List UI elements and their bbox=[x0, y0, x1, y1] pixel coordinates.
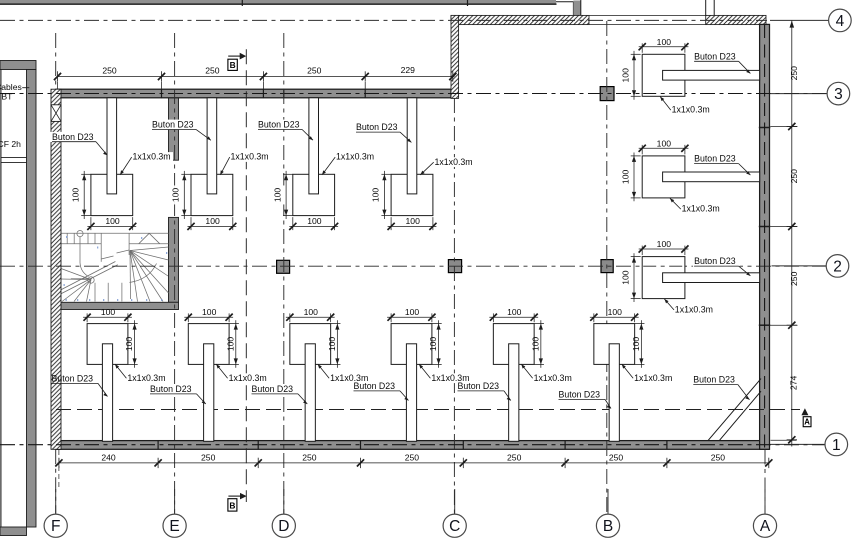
section line B-B bbox=[245, 49, 247, 502]
svg-text:250: 250 bbox=[789, 271, 799, 286]
svg-text:Buton D23: Buton D23 bbox=[559, 390, 601, 400]
column at C-2 bbox=[448, 260, 461, 273]
dimension 100 left of footing T3 bbox=[272, 171, 293, 219]
dimension 100 right of footing B6 bbox=[631, 320, 645, 368]
dimension 100 above footing R1 bbox=[639, 37, 689, 53]
svg-text:100: 100 bbox=[657, 37, 672, 47]
svg-text:1: 1 bbox=[832, 437, 841, 454]
svg-text:Buton D23: Buton D23 bbox=[694, 51, 736, 61]
svg-text:Buton D23: Buton D23 bbox=[52, 374, 94, 384]
svg-text:1x1x0.3m: 1x1x0.3m bbox=[672, 105, 710, 115]
svg-text:A: A bbox=[760, 518, 771, 535]
dimension 100 above footing B4 bbox=[387, 307, 436, 322]
svg-text:250: 250 bbox=[711, 452, 726, 462]
buton column B3 footing and post bbox=[290, 324, 331, 442]
svg-text:240: 240 bbox=[101, 452, 116, 462]
svg-text:100: 100 bbox=[657, 239, 672, 249]
label Buton D23 column B2 bbox=[149, 384, 206, 404]
svg-text:100: 100 bbox=[327, 337, 337, 352]
dimension 100 below footing T1 bbox=[87, 216, 136, 230]
label 1x1x0.3m footing R2 bbox=[670, 198, 720, 214]
svg-text:3: 3 bbox=[834, 86, 843, 103]
hatched wall vertical at C bbox=[451, 15, 459, 98]
section marker A right bbox=[801, 408, 808, 415]
svg-text:Buton D23: Buton D23 bbox=[52, 132, 94, 142]
hatched parapet wall left segment bbox=[451, 15, 589, 24]
svg-text:100: 100 bbox=[657, 139, 672, 149]
svg-text:100: 100 bbox=[272, 188, 282, 203]
grid bubble F bbox=[44, 489, 67, 537]
svg-text:1x1x0.3m: 1x1x0.3m bbox=[682, 204, 720, 214]
grid line row 2 bbox=[0, 265, 826, 267]
grid bubble A bbox=[753, 489, 776, 537]
dimension 100 right of footing B4 bbox=[428, 320, 442, 368]
label 1x1x0.3m footing T1 bbox=[120, 152, 173, 175]
grid bubble 2 bbox=[772, 255, 849, 278]
buton column B1 footing and post bbox=[87, 324, 128, 442]
svg-text:1x1x0.3m: 1x1x0.3m bbox=[133, 152, 171, 162]
svg-text:Buton D23: Buton D23 bbox=[152, 120, 194, 130]
bottom dimension chain 240/250x6 bbox=[55, 450, 772, 488]
label Buton D23 column B6 bbox=[557, 390, 611, 409]
left structure door lines bbox=[1, 157, 27, 159]
dimension 100 left of footing R1 bbox=[621, 51, 641, 100]
svg-text:B: B bbox=[603, 518, 613, 535]
label 1x1x0.3m footing R1 bbox=[660, 97, 710, 115]
svg-text:4: 4 bbox=[836, 13, 845, 30]
buton column B2 footing and post bbox=[188, 324, 229, 442]
svg-text:E: E bbox=[169, 518, 179, 535]
left structure bottom wall bbox=[0, 527, 27, 536]
buton column B6 footing and post bbox=[594, 324, 635, 442]
svg-text:BT: BT bbox=[1, 91, 13, 101]
svg-text:1x1x0.3m: 1x1x0.3m bbox=[127, 373, 165, 383]
svg-text:100: 100 bbox=[101, 307, 116, 317]
svg-text:100: 100 bbox=[608, 307, 623, 317]
svg-text:100: 100 bbox=[530, 337, 540, 352]
svg-text:250: 250 bbox=[609, 452, 624, 462]
dimension 100 above footing B3 bbox=[286, 307, 335, 322]
svg-text:250: 250 bbox=[789, 66, 799, 81]
svg-text:2: 2 bbox=[833, 259, 842, 276]
label 1x1x0.3m footing B5 bbox=[521, 364, 574, 383]
svg-text:100: 100 bbox=[621, 270, 631, 285]
dimension 100 left of footing T1 bbox=[70, 171, 91, 219]
dimension 100 above footing B2 bbox=[184, 307, 233, 322]
svg-text:274: 274 bbox=[788, 376, 798, 391]
grid bubble D bbox=[272, 489, 295, 537]
dimension 100 right of footing B2 bbox=[225, 320, 239, 368]
svg-text:Buton D23: Buton D23 bbox=[354, 381, 396, 391]
svg-text:100: 100 bbox=[371, 188, 381, 203]
label 1x1x0.3m footing T3 bbox=[322, 152, 377, 175]
svg-text:100: 100 bbox=[304, 307, 319, 317]
grid bubble 4 bbox=[770, 9, 851, 32]
grid line A lower bbox=[764, 450, 766, 516]
stair enclosure wall lower bbox=[169, 217, 179, 302]
section marker B bottom bbox=[228, 495, 240, 497]
right dimension chain 250x3/274 bbox=[770, 20, 799, 446]
grid line row 1 bbox=[0, 444, 825, 446]
svg-text:1x1x0.3m: 1x1x0.3m bbox=[435, 157, 473, 167]
dimension 100 above footing B5 bbox=[489, 307, 538, 322]
grid line E bbox=[174, 33, 176, 514]
section line A-A bbox=[56, 409, 800, 411]
svg-text:B: B bbox=[230, 60, 236, 70]
dimension 100 above footing R2 bbox=[639, 139, 689, 155]
right wall joint tick 2 bbox=[759, 226, 771, 228]
dimension 100 above footing B1 bbox=[83, 307, 132, 322]
section marker B top bbox=[228, 55, 240, 57]
svg-text:Buton D23: Buton D23 bbox=[458, 381, 500, 391]
label 1x1x0.3m footing B2 bbox=[216, 364, 269, 383]
svg-text:D: D bbox=[278, 518, 289, 535]
svg-text:1x1x0.3m: 1x1x0.3m bbox=[534, 373, 572, 383]
left structure inner edge bbox=[0, 70, 2, 528]
svg-text:100: 100 bbox=[428, 337, 438, 352]
svg-text:Buton D23: Buton D23 bbox=[150, 384, 192, 394]
label 1x1x0.3m footing R3 bbox=[664, 299, 713, 315]
label Buton D23 column B3 bbox=[250, 384, 307, 404]
bottom wall joint ticks bbox=[157, 440, 159, 449]
dimension 100 right of footing B5 bbox=[530, 320, 544, 368]
dimension 100 above footing R3 bbox=[639, 239, 689, 255]
svg-text:F: F bbox=[51, 518, 60, 535]
grid line F bbox=[55, 33, 57, 90]
grid bubble E bbox=[163, 489, 186, 537]
left structure top wall bbox=[0, 61, 36, 70]
svg-text:100: 100 bbox=[171, 188, 181, 203]
window opening in top wall bbox=[589, 15, 706, 17]
label 1x1x0.3m footing T2 bbox=[220, 152, 271, 175]
svg-text:Buton D23: Buton D23 bbox=[693, 375, 735, 385]
svg-text:1x1x0.3m: 1x1x0.3m bbox=[231, 152, 269, 162]
grid bubble 3 bbox=[770, 82, 850, 105]
svg-text:100: 100 bbox=[105, 216, 120, 226]
label 1x1x0.3m footing B6 bbox=[622, 364, 675, 383]
grid bubble C bbox=[443, 489, 466, 537]
svg-text:250: 250 bbox=[307, 66, 322, 76]
left structure vertical wall bbox=[27, 70, 37, 528]
hatched parapet wall right segment bbox=[706, 15, 766, 24]
svg-text:1x1x0.3m: 1x1x0.3m bbox=[336, 152, 374, 162]
svg-text:Buton D23: Buton D23 bbox=[694, 256, 736, 266]
svg-text:1x1x0.3m: 1x1x0.3m bbox=[675, 305, 713, 315]
label Buton D23 column R2 bbox=[693, 154, 751, 175]
buton column R3 footing and tie beam bbox=[642, 257, 759, 299]
svg-text:250: 250 bbox=[102, 66, 117, 76]
grid line row 3 bbox=[0, 93, 827, 95]
main right wall bbox=[760, 24, 770, 449]
svg-text:100: 100 bbox=[621, 68, 631, 83]
svg-text:100: 100 bbox=[406, 216, 421, 226]
buton column T1 footing and post bbox=[91, 98, 133, 216]
column at B-3 bbox=[600, 87, 614, 101]
svg-text:CF 2h: CF 2h bbox=[0, 139, 21, 149]
label Buton D23 column B1 bbox=[52, 374, 108, 397]
dimension 100 below footing T4 bbox=[388, 216, 437, 230]
buton column T2 footing and post bbox=[191, 98, 233, 216]
dimension 100 left of footing T4 bbox=[371, 171, 392, 219]
svg-text:250: 250 bbox=[405, 452, 420, 462]
svg-text:100: 100 bbox=[631, 337, 641, 352]
dimension 100 below footing T3 bbox=[289, 216, 338, 230]
window in left wall bbox=[51, 105, 61, 122]
stair enclosure wall bottom bbox=[53, 302, 179, 309]
right wall joint tick 1 bbox=[759, 127, 771, 129]
grid line A wall centerline bbox=[764, 25, 766, 449]
buton column B4 footing and post bbox=[391, 324, 432, 442]
svg-text:250: 250 bbox=[789, 169, 799, 184]
svg-text:1x1x0.3m: 1x1x0.3m bbox=[229, 373, 267, 383]
buton column T4 footing and post bbox=[391, 98, 433, 216]
buton column R1 footing and tie beam bbox=[642, 54, 759, 96]
stair enclosure wall upper bbox=[169, 97, 179, 160]
svg-text:229: 229 bbox=[401, 65, 416, 75]
svg-text:250: 250 bbox=[205, 66, 220, 76]
label Buton D23 column T4 bbox=[355, 122, 412, 142]
svg-text:100: 100 bbox=[507, 307, 522, 317]
label 1x1x0.3m footing B1 bbox=[115, 364, 168, 383]
main bottom wall row 1 bbox=[56, 441, 769, 450]
svg-text:250: 250 bbox=[201, 452, 216, 462]
grid line row 4 bbox=[0, 19, 767, 21]
dimension 100 right of footing B1 bbox=[124, 320, 138, 368]
main top wall row 3 bbox=[56, 89, 451, 98]
dimension 100 left of footing T2 bbox=[171, 171, 192, 219]
grid bubble 1 bbox=[770, 433, 848, 456]
grid line D bbox=[283, 33, 285, 514]
svg-text:100: 100 bbox=[307, 216, 322, 226]
buton column T3 footing and post bbox=[293, 98, 335, 216]
grid bubble B bbox=[596, 489, 619, 537]
grid line C bbox=[453, 98, 455, 516]
column at B-2 bbox=[601, 260, 613, 273]
dimension 100 below footing T2 bbox=[187, 216, 236, 230]
svg-text:A: A bbox=[804, 418, 810, 427]
column at D-2 bbox=[277, 260, 290, 273]
grid line B bbox=[606, 21, 608, 516]
label Buton D23 column B5 bbox=[456, 381, 511, 401]
buton column B5 footing and post bbox=[493, 324, 534, 442]
stair bbox=[61, 231, 169, 302]
adjacent building top wall bbox=[0, 0, 556, 3]
label Buton D23 column R3 bbox=[693, 256, 751, 276]
buton column R2 footing and tie beam bbox=[642, 156, 759, 198]
label Buton D23 column T2 bbox=[151, 120, 211, 141]
dimension 100 above footing B6 bbox=[590, 307, 639, 322]
diagonal buton brace bbox=[708, 379, 761, 441]
svg-text:Buton D23: Buton D23 bbox=[356, 122, 398, 132]
label 1x1x0.3m footing T4 bbox=[420, 157, 475, 175]
svg-text:100: 100 bbox=[205, 216, 220, 226]
main left wall hatched bbox=[51, 89, 61, 449]
dimension 100 left of footing R2 bbox=[621, 153, 641, 202]
svg-text:100: 100 bbox=[405, 307, 420, 317]
svg-text:Buton D23: Buton D23 bbox=[252, 384, 294, 394]
top dimension chain 250/250/250/229 bbox=[54, 65, 457, 89]
svg-text:100: 100 bbox=[225, 337, 235, 352]
svg-text:100: 100 bbox=[70, 188, 80, 203]
svg-text:C: C bbox=[449, 518, 460, 535]
wall stub above top-right wall bbox=[705, 0, 707, 16]
label Buton D23 column T1 bbox=[51, 132, 108, 156]
label 1x1x0.3m footing B4 bbox=[419, 364, 472, 383]
label Buton D23 column T3 bbox=[257, 120, 314, 141]
svg-text:B: B bbox=[229, 500, 235, 510]
label Buton D23 column B4 bbox=[352, 381, 409, 401]
svg-text:1x1x0.3m: 1x1x0.3m bbox=[634, 373, 672, 383]
adjacent building wall return bbox=[572, 2, 574, 16]
svg-text:Buton D23: Buton D23 bbox=[694, 154, 736, 164]
right wall joint tick 3 bbox=[759, 324, 771, 326]
svg-text:100: 100 bbox=[124, 337, 134, 352]
label Buton D23 column R1 bbox=[693, 51, 751, 73]
dimension 100 right of footing B3 bbox=[327, 320, 341, 368]
top wall joint ticks bbox=[161, 89, 163, 98]
svg-text:250: 250 bbox=[507, 452, 522, 462]
svg-text:250: 250 bbox=[302, 452, 317, 462]
dimension 100 left of footing R3 bbox=[621, 253, 641, 302]
svg-text:100: 100 bbox=[202, 307, 217, 317]
svg-text:Buton D23: Buton D23 bbox=[258, 120, 300, 130]
label 1x1x0.3m footing B3 bbox=[318, 364, 371, 383]
svg-text:100: 100 bbox=[621, 170, 631, 185]
